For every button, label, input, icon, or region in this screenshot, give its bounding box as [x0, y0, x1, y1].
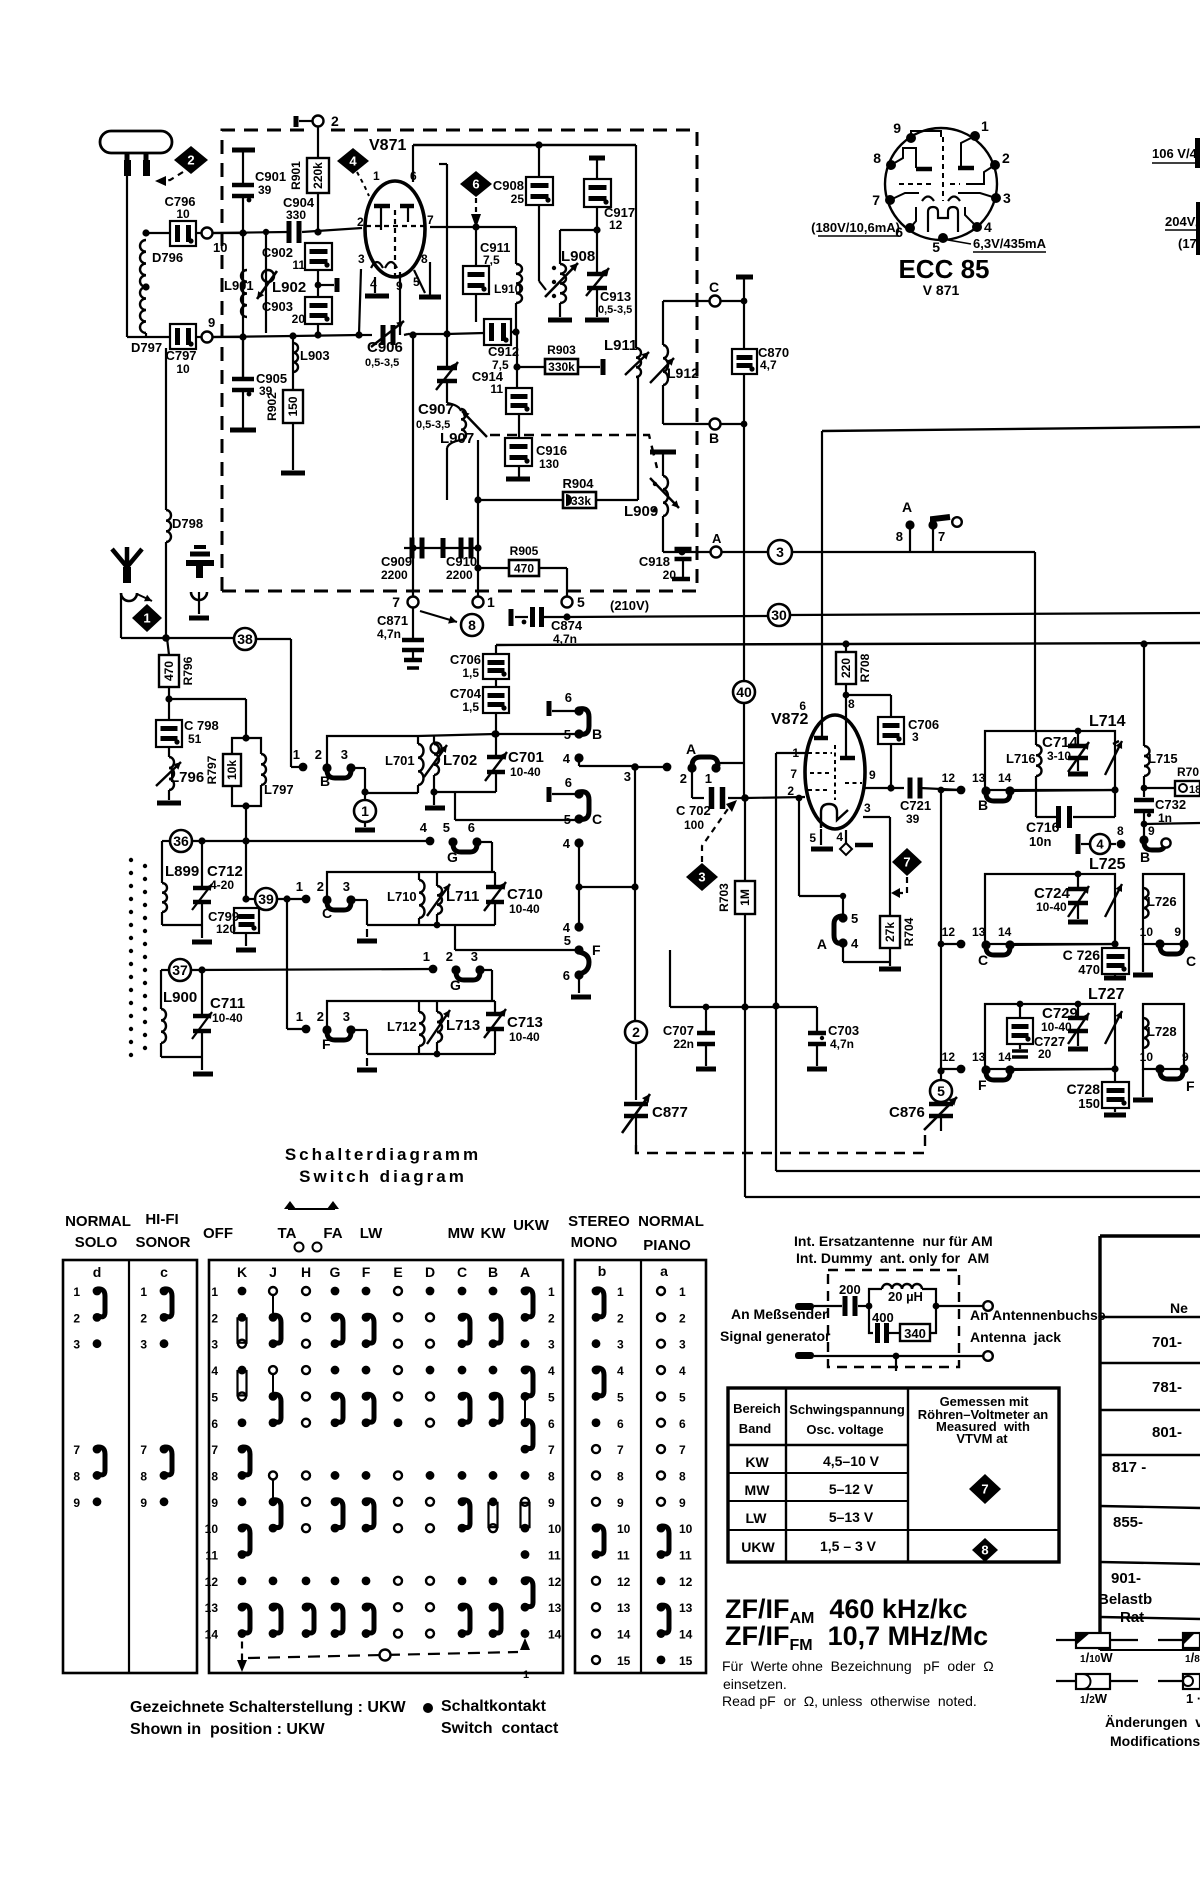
wire plate feed row y430 [822, 427, 1200, 736]
svg-text:A: A [817, 936, 827, 952]
svg-text:10: 10 [1140, 925, 1154, 939]
svg-text:D797: D797 [131, 340, 162, 355]
svg-text:Änderungen vo: Änderungen vo [1105, 1714, 1200, 1730]
svg-text:Gezeichnete Schalterstellung :: Gezeichnete Schalterstellung : UKW [130, 1699, 407, 1716]
capacitor C874 4,7n [511, 601, 583, 646]
svg-text:8: 8 [73, 1469, 80, 1483]
svg-text:ECC 85: ECC 85 [898, 254, 989, 284]
svg-text:Osc. voltage: Osc. voltage [806, 1422, 883, 1437]
legend gezeichnete [130, 1699, 407, 1738]
svg-text:40: 40 [736, 684, 752, 700]
svg-text:12: 12 [548, 1575, 562, 1589]
hook C right [455, 775, 602, 827]
ECC85 internal electrodes [890, 131, 996, 232]
svg-text:Schalterdiagramm: Schalterdiagramm [285, 1145, 481, 1164]
svg-text:Schaltkontakt: Schaltkontakt [441, 1698, 547, 1715]
svg-text:Für Werte ohne Bezeichnung: Für Werte ohne Bezeichnung pF oder Ω [722, 1658, 994, 1674]
svg-text:d: d [93, 1264, 102, 1280]
svg-text:C913: C913 [600, 289, 631, 304]
variable capacitor C729 10-40 [1041, 1001, 1089, 1049]
svg-text:7: 7 [981, 1482, 988, 1497]
resistor R904 33k [474, 377, 638, 508]
svg-text:781-: 781- [1152, 1379, 1182, 1396]
capacitor 200 [839, 1282, 872, 1316]
svg-text:7: 7 [73, 1443, 80, 1457]
capacitor 400 and resistor 340 [869, 1303, 939, 1343]
variable capacitor C714 3-10 [1042, 728, 1089, 774]
svg-text:14: 14 [998, 771, 1012, 785]
svg-text:Switch diagram: Switch diagram [299, 1167, 467, 1186]
svg-text:C716: C716 [1026, 819, 1060, 835]
d c column contacts [73, 1285, 172, 1510]
svg-text:6: 6 [472, 177, 479, 192]
terminal 1 [473, 594, 496, 610]
svg-text:L908: L908 [561, 248, 595, 265]
svg-text:Signal generator: Signal generator [720, 1328, 831, 1344]
svg-text:E: E [393, 1264, 402, 1280]
svg-text:10-40: 10-40 [1036, 900, 1067, 914]
svg-text:10-40: 10-40 [510, 765, 541, 779]
capacitor C902 11 [262, 243, 337, 297]
circled 40 [733, 681, 755, 703]
svg-text:Bereich: Bereich [733, 1401, 781, 1416]
svg-text:3: 3 [548, 1338, 555, 1352]
svg-text:6: 6 [679, 1417, 686, 1431]
svg-text:V871: V871 [369, 137, 406, 154]
svg-text:V 871: V 871 [923, 282, 960, 298]
svg-text:2: 2 [331, 113, 339, 129]
svg-text:1,5: 1,5 [462, 666, 479, 680]
arrow antenna to diamond 1 [137, 594, 152, 601]
svg-text:2: 2 [787, 784, 794, 798]
resistor R708 220 [836, 644, 872, 757]
svg-text:1: 1 [981, 118, 989, 134]
svg-text:D: D [425, 1264, 435, 1280]
svg-text:L903: L903 [300, 348, 330, 363]
svg-text:11: 11 [617, 1549, 630, 1563]
svg-text:6: 6 [563, 968, 570, 983]
svg-text:9: 9 [548, 1496, 555, 1510]
svg-text:130: 130 [539, 457, 559, 471]
svg-text:9: 9 [1148, 824, 1155, 838]
svg-text:1: 1 [487, 594, 495, 610]
switch B right contacts 9 [1139, 824, 1170, 865]
capacitor C716 10n [1026, 790, 1115, 849]
svg-text:5: 5 [211, 1390, 218, 1404]
variable coil L912 [650, 301, 699, 424]
wire row 38 [121, 634, 233, 642]
svg-text:6: 6 [617, 1417, 624, 1431]
svg-text:8: 8 [211, 1469, 218, 1483]
svg-text:7: 7 [617, 1443, 624, 1457]
svg-text:3: 3 [341, 747, 348, 762]
svg-text:8: 8 [848, 697, 855, 711]
svg-text:204V/: 204V/ [1165, 214, 1199, 229]
switch diagram title [285, 1145, 481, 1186]
svg-text:C713: C713 [507, 1014, 543, 1031]
svg-text:12: 12 [942, 771, 956, 785]
coil L910 [494, 227, 522, 336]
ZF IF frequencies [725, 1594, 988, 1654]
svg-text:220k: 220k [311, 162, 325, 189]
svg-text:Ne: Ne [1170, 1300, 1188, 1316]
svg-text:einsetzen.: einsetzen. [723, 1676, 787, 1692]
svg-text:7: 7 [790, 767, 797, 781]
svg-text:855-: 855- [1113, 1514, 1143, 1531]
svg-text:HI-FI: HI-FI [145, 1211, 178, 1228]
variable coil L902 [257, 229, 306, 333]
tuning slug L714 [1105, 741, 1122, 775]
terminal A [711, 531, 769, 558]
svg-text:15: 15 [617, 1654, 631, 1668]
svg-text:LW: LW [746, 1510, 768, 1526]
svg-text:R704: R704 [902, 917, 916, 946]
svg-text:7: 7 [938, 529, 945, 544]
dummy antenna output terminals [893, 1301, 993, 1371]
capacitor C908 25 [493, 145, 553, 281]
diamond 2 [174, 146, 208, 174]
switch C contacts 12 13 14 [941, 925, 1119, 968]
svg-text:C797: C797 [165, 348, 196, 363]
capacitor C704 1,5 [450, 686, 509, 738]
variable capacitor C710 10-40 [419, 872, 543, 925]
svg-text:4: 4 [851, 936, 859, 951]
svg-text:Int. Ersatzantenne nur für AM: Int. Ersatzantenne nur für AM [794, 1233, 993, 1249]
svg-text:3: 3 [73, 1338, 80, 1352]
svg-text:(180V/10,6mA): (180V/10,6mA) [811, 220, 900, 235]
svg-text:2: 2 [315, 747, 322, 762]
svg-text:901-: 901- [1111, 1570, 1141, 1587]
svg-text:470: 470 [1078, 962, 1100, 977]
capacitor C702 100 [676, 787, 805, 832]
wire V872 grid1 x776 [772, 753, 1200, 1171]
svg-text:4: 4 [420, 820, 428, 835]
svg-text:9: 9 [140, 1496, 147, 1510]
svg-text:b: b [598, 1263, 607, 1279]
svg-text:C706: C706 [450, 652, 481, 667]
svg-text:20: 20 [292, 312, 306, 326]
svg-text:3: 3 [1003, 190, 1011, 206]
circled 3 [768, 540, 1035, 731]
svg-text:8: 8 [421, 252, 428, 266]
capacitor C906 0,5-3,5 [365, 321, 404, 369]
diamond 7 table [969, 1474, 1001, 1504]
wire row y1007 [670, 950, 817, 1011]
svg-text:C710: C710 [507, 886, 543, 903]
wire plate drop x447 [439, 164, 447, 334]
svg-text:L714: L714 [1089, 713, 1126, 730]
wire R901 to grid row [314, 193, 321, 236]
wire antenna left leg [126, 176, 128, 337]
svg-text:B: B [709, 430, 719, 446]
svg-text:C703: C703 [828, 1023, 859, 1038]
resistor R905 470 [478, 544, 567, 596]
coil D796 [140, 229, 183, 287]
svg-text:4: 4 [984, 219, 992, 235]
svg-text:6: 6 [468, 820, 475, 835]
circled 38 [234, 628, 291, 767]
tube V871 pin leads and cathode grounds [359, 145, 441, 335]
svg-text:14: 14 [617, 1628, 631, 1642]
svg-text:F: F [592, 942, 601, 958]
svg-text:R703: R703 [717, 883, 731, 912]
chassis antenna symbol [186, 547, 214, 618]
svg-text:4: 4 [548, 1364, 555, 1378]
switch A lower contacts 5 4 [796, 795, 890, 962]
svg-text:7: 7 [679, 1443, 686, 1457]
svg-text:V872: V872 [771, 711, 808, 728]
variable capacitor C724 10-40 [1034, 871, 1089, 922]
switch C right contacts 10 9 [1133, 925, 1196, 975]
svg-text:701-: 701- [1152, 1334, 1182, 1351]
svg-text:F: F [1186, 1078, 1195, 1094]
svg-text:27k: 27k [883, 922, 897, 942]
tank L712 [327, 1001, 495, 1070]
svg-text:5: 5 [937, 1083, 945, 1099]
wire L715 to R709 [1141, 785, 1175, 792]
switch B contacts 1 2 3 [291, 747, 369, 796]
variable coil L911 [604, 337, 649, 377]
svg-text:4: 4 [617, 1364, 624, 1378]
svg-text:33k: 33k [571, 494, 591, 508]
circled 2 [625, 1021, 647, 1100]
svg-text:Band: Band [739, 1421, 772, 1436]
switch matrix box b a [575, 1260, 706, 1673]
svg-text:2200: 2200 [381, 568, 408, 582]
variable capacitor C907 [416, 334, 458, 431]
variable coil L796 [156, 757, 204, 803]
svg-text:10-40: 10-40 [509, 902, 540, 916]
svg-text:10: 10 [548, 1522, 562, 1536]
circled 1 ground [354, 792, 376, 830]
svg-text:7,5: 7,5 [483, 253, 500, 267]
capacitor C797 [146, 324, 201, 376]
svg-text:NORMAL: NORMAL [638, 1213, 704, 1230]
svg-text:LW: LW [360, 1225, 383, 1242]
svg-text:C902: C902 [262, 245, 293, 260]
diamond 4 [337, 148, 369, 196]
svg-text:9: 9 [1182, 1050, 1189, 1064]
svg-text:4: 4 [349, 154, 357, 169]
svg-text:1: 1 [548, 1285, 555, 1299]
svg-text:L909: L909 [624, 503, 658, 520]
coil D798 [166, 348, 203, 638]
resistor R703 1M [717, 798, 755, 1197]
svg-text:150: 150 [1078, 1096, 1100, 1111]
svg-text:R708: R708 [858, 653, 872, 682]
svg-text:L702: L702 [443, 752, 477, 769]
svg-text:1: 1 [73, 1285, 80, 1299]
hook B right [496, 690, 602, 742]
svg-text:9: 9 [208, 315, 215, 330]
svg-text:22n: 22n [673, 1037, 694, 1051]
svg-text:1,5 – 3 V: 1,5 – 3 V [820, 1538, 877, 1554]
svg-text:Rat: Rat [1120, 1609, 1144, 1626]
svg-text:C: C [457, 1264, 467, 1280]
svg-text:13: 13 [972, 771, 986, 785]
svg-text:C908: C908 [493, 178, 524, 193]
switch matrix box main [209, 1260, 563, 1673]
svg-text:4,5–10 V: 4,5–10 V [823, 1453, 880, 1469]
svg-text:12: 12 [617, 1575, 631, 1589]
switch G contacts 4 5 6 [420, 820, 492, 872]
svg-text:C909: C909 [381, 554, 412, 569]
svg-text:C: C [709, 279, 719, 295]
receiving antenna [112, 547, 142, 638]
svg-text:12: 12 [942, 1050, 956, 1064]
switch matrix row numbers [205, 1285, 562, 1642]
svg-text:2: 2 [446, 949, 453, 964]
svg-text:R796: R796 [181, 656, 195, 685]
svg-text:8: 8 [617, 1469, 624, 1483]
test point circled 4 [1078, 824, 1125, 854]
coil L900 [161, 970, 202, 1057]
switch position header labels [65, 1211, 704, 1254]
svg-text:6: 6 [565, 690, 572, 705]
svg-text:1: 1 [211, 1285, 218, 1299]
wire x635 column [631, 767, 638, 1021]
svg-text:10: 10 [617, 1522, 631, 1536]
svg-text:20 µH: 20 µH [888, 1289, 923, 1304]
dashed pointer diamond 3 [702, 800, 737, 862]
svg-text:150: 150 [286, 396, 300, 416]
svg-text:C877: C877 [652, 1104, 688, 1121]
svg-text:2: 2 [548, 1311, 555, 1325]
switch F right contacts 10 9 [1133, 1050, 1195, 1100]
svg-text:Belastb: Belastb [1098, 1591, 1152, 1608]
svg-text:10-40: 10-40 [509, 1030, 540, 1044]
svg-text:R797: R797 [205, 755, 219, 784]
svg-text:Antenna jack: Antenna jack [970, 1329, 1061, 1345]
coil 20uH [869, 1284, 936, 1306]
variable capacitor C712 4-20 [192, 841, 243, 942]
svg-text:R901: R901 [289, 161, 303, 190]
svg-text:36: 36 [173, 833, 189, 849]
svg-text:C707: C707 [663, 1023, 694, 1038]
resistor R902 150 [265, 390, 305, 473]
svg-text:4,7n: 4,7n [377, 627, 401, 641]
svg-text:FA: FA [323, 1225, 342, 1242]
svg-text:10: 10 [679, 1522, 693, 1536]
svg-text:13: 13 [548, 1601, 562, 1615]
switch C contacts 1 2 3 [296, 879, 367, 925]
svg-text:3: 3 [864, 801, 871, 815]
svg-text:10k: 10k [225, 760, 239, 780]
svg-text:2200: 2200 [446, 568, 473, 582]
value note text [722, 1658, 994, 1709]
svg-text:3: 3 [471, 949, 478, 964]
svg-text:340: 340 [904, 1326, 926, 1341]
svg-text:14: 14 [998, 1050, 1012, 1064]
svg-text:L716: L716 [1006, 751, 1036, 766]
capacitor C909 2200 [381, 538, 478, 583]
svg-text:3: 3 [343, 879, 350, 894]
svg-text:A: A [686, 741, 696, 757]
svg-text:470: 470 [514, 561, 534, 575]
svg-text:5–13 V: 5–13 V [829, 1509, 874, 1525]
coil L728 secondary box [1143, 1004, 1184, 1069]
tube V872 [771, 697, 876, 845]
capacitor C916 130 [505, 438, 567, 479]
svg-text:4: 4 [211, 1364, 218, 1378]
svg-text:4: 4 [679, 1364, 686, 1378]
svg-text:KW: KW [481, 1225, 507, 1242]
svg-text:1 ·: 1 · [1186, 1691, 1200, 1706]
svg-text:L902: L902 [272, 279, 306, 296]
modifications note [1105, 1714, 1200, 1749]
svg-text:8: 8 [140, 1469, 147, 1483]
svg-text:L725: L725 [1089, 856, 1126, 873]
svg-text:2: 2 [357, 215, 364, 229]
variable coil L909 [624, 452, 679, 552]
svg-text:12: 12 [609, 218, 623, 232]
terminal 5 [562, 594, 586, 610]
svg-text:10: 10 [213, 240, 227, 255]
svg-text:8: 8 [896, 529, 903, 544]
wire R703 out row [745, 1196, 1200, 1198]
coil L716 [1006, 731, 1042, 817]
svg-text:2: 2 [187, 153, 194, 168]
svg-text:14: 14 [205, 1628, 219, 1642]
wattage symbol 1/2W [1056, 1674, 1138, 1706]
svg-text:L712: L712 [387, 1019, 417, 1034]
terminal 2 top [296, 113, 339, 158]
svg-text:20: 20 [1038, 1047, 1052, 1061]
svg-text:STEREO: STEREO [568, 1213, 630, 1230]
svg-text:5: 5 [577, 594, 585, 610]
tank L701 [327, 730, 499, 793]
svg-text:NORMAL: NORMAL [65, 1213, 131, 1230]
svg-text:39: 39 [258, 183, 272, 197]
svg-text:R905: R905 [510, 544, 539, 558]
svg-text:13: 13 [679, 1601, 693, 1615]
svg-text:3: 3 [912, 730, 919, 744]
svg-text:L907: L907 [440, 430, 474, 447]
tuning slug L727 [1105, 1011, 1122, 1044]
wire C918 L909 to terminal A [663, 549, 710, 556]
svg-text:Switch contact: Switch contact [441, 1720, 559, 1737]
svg-text:4: 4 [563, 751, 571, 766]
svg-text:38: 38 [237, 631, 253, 647]
svg-text:G: G [330, 1264, 341, 1280]
svg-text:470: 470 [162, 661, 176, 681]
svg-text:2: 2 [679, 1311, 686, 1325]
svg-text:14: 14 [679, 1628, 693, 1642]
wire pin7 row y227 [430, 223, 516, 230]
capacitor C798 51 [156, 718, 219, 757]
tank bottom wire [425, 792, 496, 820]
svg-text:11: 11 [679, 1549, 692, 1563]
capacitor C728 150 [1067, 1069, 1129, 1115]
parallel R797 L797 [169, 699, 294, 899]
svg-text:Int. Dummy ant. only for AM: Int. Dummy ant. only for AM [796, 1250, 989, 1266]
tank L710 [327, 872, 495, 941]
wattage symbol 1W partial [1158, 1674, 1200, 1706]
svg-text:37: 37 [172, 962, 188, 978]
svg-text:1: 1 [296, 1009, 303, 1024]
svg-text:11: 11 [292, 258, 305, 272]
svg-text:8: 8 [468, 617, 476, 633]
svg-text:0,5-3,5: 0,5-3,5 [365, 357, 399, 369]
switch A contacts 3 2 1 [600, 703, 744, 798]
svg-text:1: 1 [523, 1669, 529, 1681]
svg-text:7: 7 [427, 213, 434, 227]
svg-text:330k: 330k [548, 360, 575, 374]
svg-text:5: 5 [679, 1390, 686, 1404]
svg-text:L713: L713 [446, 1017, 480, 1034]
svg-text:13: 13 [972, 925, 986, 939]
svg-text:801-: 801- [1152, 1424, 1182, 1441]
